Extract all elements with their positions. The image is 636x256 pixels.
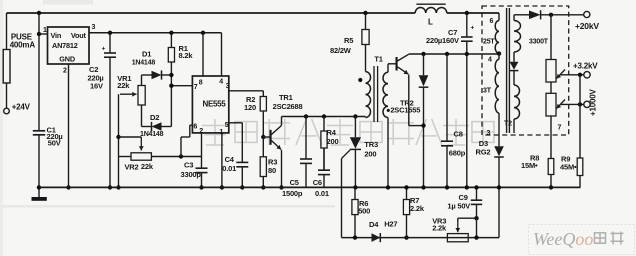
svg-text:C4: C4	[225, 155, 235, 164]
svg-text:500: 500	[358, 206, 370, 215]
svg-text:2.2k: 2.2k	[432, 224, 447, 233]
svg-text:AN7812: AN7812	[52, 41, 78, 50]
svg-text:D2: D2	[150, 113, 159, 122]
svg-text:+1000V: +1000V	[588, 89, 597, 116]
svg-text:RG2: RG2	[476, 148, 491, 157]
svg-text:0.01: 0.01	[222, 164, 236, 173]
svg-text:5: 5	[225, 122, 229, 129]
svg-text:22k: 22k	[141, 162, 154, 171]
svg-text:82/2W: 82/2W	[330, 46, 352, 55]
svg-text:Vin: Vin	[51, 31, 62, 40]
svg-text:6: 6	[490, 18, 494, 25]
svg-text:2.2k: 2.2k	[410, 204, 425, 213]
svg-text:16V: 16V	[90, 81, 103, 90]
svg-text:R5: R5	[344, 36, 353, 45]
svg-text:7: 7	[194, 84, 198, 91]
svg-text:+24V: +24V	[12, 103, 31, 112]
svg-text:Vout: Vout	[71, 31, 87, 40]
svg-text:220µ160V: 220µ160V	[426, 36, 459, 45]
svg-text:C5: C5	[290, 178, 299, 187]
svg-text:C6: C6	[313, 178, 322, 187]
svg-text:7: 7	[558, 125, 562, 132]
svg-text:3: 3	[226, 83, 230, 90]
svg-text:680p: 680p	[449, 149, 466, 158]
svg-text:4: 4	[219, 79, 223, 86]
svg-text:8: 8	[199, 80, 203, 87]
svg-text:WeeQoo: WeeQoo	[533, 229, 593, 249]
svg-text:TR3: TR3	[364, 140, 378, 149]
svg-text:●2SC1555: ●2SC1555	[386, 106, 420, 115]
svg-text:1N4148: 1N4148	[132, 59, 156, 66]
svg-text:VR2: VR2	[125, 162, 139, 171]
svg-text:3: 3	[92, 24, 96, 31]
svg-text:3: 3	[487, 130, 491, 137]
svg-text:C3: C3	[184, 161, 193, 170]
svg-text:+: +	[102, 46, 106, 53]
svg-text:6: 6	[193, 124, 197, 131]
svg-text:T1: T1	[374, 55, 382, 64]
svg-text:50V: 50V	[48, 138, 61, 147]
svg-text:3300p: 3300p	[181, 170, 202, 179]
svg-text:GND: GND	[59, 54, 75, 63]
svg-text:1N4148: 1N4148	[140, 131, 164, 138]
svg-text:45M•: 45M•	[560, 162, 577, 171]
svg-text:3300T: 3300T	[529, 39, 549, 46]
svg-text:22k: 22k	[117, 81, 130, 90]
svg-text:200: 200	[327, 137, 339, 146]
svg-text:1500p: 1500p	[282, 189, 303, 198]
svg-text:1: 1	[43, 27, 47, 34]
svg-text:0.01: 0.01	[315, 189, 329, 198]
svg-text:T2: T2	[504, 121, 512, 128]
svg-text:15M•: 15M•	[521, 161, 538, 170]
svg-text:+3.2kV: +3.2kV	[573, 62, 598, 71]
svg-text:NE555: NE555	[203, 100, 227, 109]
svg-text:120: 120	[244, 103, 256, 112]
svg-text:200: 200	[364, 150, 376, 159]
svg-text:C8: C8	[454, 130, 463, 139]
svg-text:400mA: 400mA	[10, 40, 36, 49]
svg-text:1µ 50V: 1µ 50V	[447, 201, 470, 210]
svg-text:+20kV: +20kV	[575, 21, 599, 31]
svg-text:D4: D4	[369, 220, 379, 229]
svg-text:2: 2	[63, 68, 67, 75]
svg-text:8.2k: 8.2k	[179, 51, 194, 60]
svg-text:+: +	[471, 25, 475, 32]
svg-text:D1: D1	[142, 50, 151, 59]
svg-text:80: 80	[268, 166, 276, 175]
svg-text:3T: 3T	[483, 88, 492, 95]
svg-text:TR1: TR1	[279, 93, 293, 102]
svg-text:4: 4	[488, 56, 492, 63]
svg-text:L: L	[428, 18, 433, 27]
svg-text:25T: 25T	[483, 39, 495, 46]
svg-text:H27: H27	[384, 220, 397, 229]
svg-text:2SC2688: 2SC2688	[273, 102, 303, 111]
